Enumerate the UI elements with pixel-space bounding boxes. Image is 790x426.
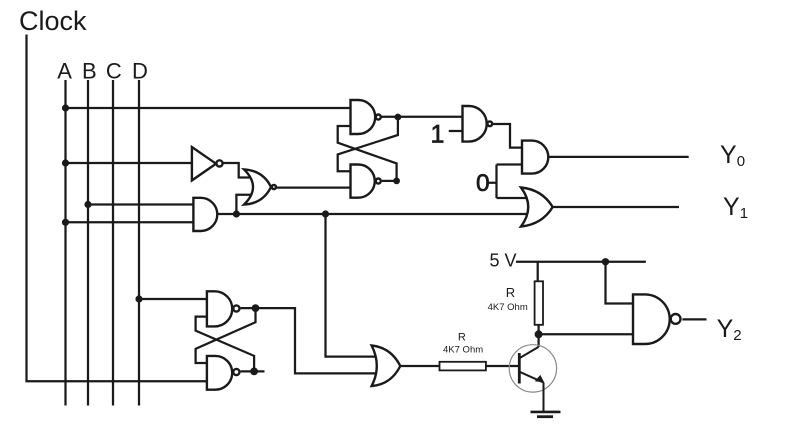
wire resistor R1 to collector node (537, 325, 539, 347)
junction latch1 Q (395, 114, 402, 121)
wire 5V rail (516, 261, 646, 263)
junction latch2 Qbar (250, 368, 258, 376)
wire Y0 output (548, 156, 688, 158)
or gate G4b Y1 (521, 188, 553, 227)
wire A to inverter input (66, 162, 195, 164)
wire latch2 cross-couple top-to-bottom (196, 308, 256, 363)
wire 5V rail to NAND G6 upper input (606, 262, 641, 304)
junction collector node (535, 330, 543, 338)
wire Clock vertical and bottom run (27, 35, 213, 382)
svg-text:Y0: Y0 (720, 141, 745, 170)
svg-text:B: B (82, 59, 97, 84)
junction AND out tap1 (233, 210, 240, 217)
wire constant-1 stub (449, 130, 463, 132)
svg-text:R: R (506, 285, 515, 300)
svg-text:A: A (57, 59, 72, 84)
junction node B-row (84, 201, 91, 208)
ground (531, 412, 561, 417)
wire NAND G2 output step to AND G3 (493, 124, 528, 148)
wire column A (64, 80, 66, 406)
wire column D (138, 80, 140, 406)
wire OR G5 output to resistor R2 (400, 365, 439, 367)
wire latch2 Q output route to OR G5 bottom input (241, 308, 381, 373)
wire collector node to NAND G6 lower input (539, 333, 640, 335)
junction 5V rail node (602, 258, 609, 265)
or gate G5 (372, 346, 401, 387)
wire NOR output to latch1 bottom NAND (277, 186, 357, 188)
wire latch2 Qbar stub (241, 370, 265, 372)
wire latch2 cross-couple bottom-to-top (196, 317, 255, 372)
wire latch1 Qbar stub (382, 180, 397, 182)
svg-text:4K7 Ohm: 4K7 Ohm (443, 344, 483, 355)
nor gate G4 (244, 169, 271, 204)
wire AND G1 output long run (218, 213, 529, 215)
svg-text:4K7 Ohm: 4K7 Ohm (488, 302, 528, 313)
nand latch2 bottom gate (207, 356, 232, 390)
wire latch1 Q output to NAND G2 (382, 116, 469, 118)
wire resistor R2 to transistor base (486, 365, 519, 367)
wire D to latch2 top NAND input (139, 298, 212, 300)
junction node D-row (135, 295, 142, 302)
svg-text:Y2: Y2 (717, 315, 742, 344)
svg-text:C: C (106, 59, 122, 84)
nand latch2 top gate (207, 291, 232, 326)
junction node A-row2 (62, 159, 69, 166)
svg-text:1: 1 (431, 121, 445, 149)
wire latch1 cross-couple top-to-bottom (338, 117, 398, 171)
and gate G3 Y0 (522, 141, 548, 174)
transistor Q1 (509, 345, 556, 412)
nand latch1 bottom gate (351, 165, 375, 198)
wire column B (87, 80, 89, 406)
resistor R1 4K7 (535, 281, 543, 325)
nand gate G6 Y2 (633, 294, 670, 344)
svg-text:Clock: Clock (19, 6, 87, 36)
junction AND out tap2 (322, 210, 329, 217)
junction node A-row3 (62, 219, 69, 226)
svg-text:5 V: 5 V (490, 251, 517, 271)
svg-text:D: D (132, 59, 148, 84)
wire 5V rail to resistor R1 (537, 262, 539, 282)
wire Y1 output (553, 206, 679, 208)
and gate G1 (193, 198, 217, 231)
wire tap down to OR G5 top input (326, 214, 382, 357)
svg-text:Y1: Y1 (723, 193, 748, 222)
svg-text:0: 0 (476, 170, 490, 197)
wire constant-0 net (488, 165, 532, 199)
wire column C (112, 80, 114, 406)
wire Y2 output (682, 318, 706, 320)
junction latch2 Q (252, 304, 260, 312)
nand latch1 top gate (351, 100, 376, 134)
svg-text:R: R (458, 332, 466, 344)
wire B to AND G1 top input (88, 203, 200, 205)
resistor R2 4K7 (440, 362, 486, 371)
wire latch1 cross-couple bottom-to-top (338, 126, 397, 181)
junction latch1 Qbar (393, 178, 400, 185)
wire A to AND G1 bottom input (66, 221, 201, 223)
wire A to latch1 top NAND input (66, 107, 358, 109)
junction node A-row1 (62, 104, 69, 111)
wire tap to NOR bottom input (236, 195, 253, 214)
wire inverter output step to NOR (222, 163, 253, 178)
inverter U1 (192, 147, 216, 180)
nand gate G2 constant-1 (463, 106, 487, 142)
